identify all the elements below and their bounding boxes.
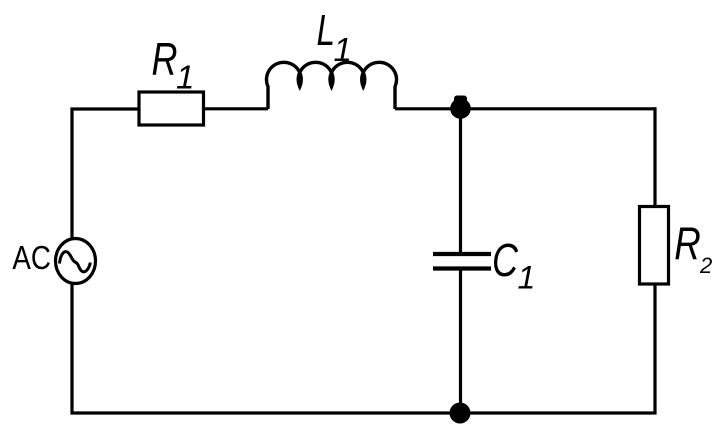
node B (bottom junction) <box>450 403 471 424</box>
node A (top junction) <box>450 98 471 119</box>
svg-text:1: 1 <box>176 59 194 96</box>
capacitor C1 <box>433 252 491 256</box>
wire top-left: from left corner to R1 <box>72 109 139 240</box>
svg-text:R: R <box>152 33 178 85</box>
resistor R1 <box>139 92 204 125</box>
wire R1 to L1 <box>204 107 269 110</box>
svg-text:L: L <box>317 6 336 55</box>
wire right rail lower: R2 to bottom corner <box>460 283 655 413</box>
svg-text:C: C <box>492 234 519 286</box>
svg-text:2: 2 <box>699 253 712 278</box>
wire capacitor branch lower <box>459 269 462 414</box>
AC source V1 <box>56 239 96 284</box>
wire capacitor branch upper <box>459 109 462 254</box>
svg-text:R: R <box>674 218 701 270</box>
wire bottom rail left half <box>72 283 460 413</box>
resistor R2 <box>640 207 669 285</box>
svg-text:AC: AC <box>12 240 51 277</box>
inductor L1 <box>266 62 396 109</box>
svg-text:1: 1 <box>518 260 536 296</box>
wire L1 to top-right corner <box>395 107 655 110</box>
wire right rail upper: corner to R2 <box>653 107 656 207</box>
svg-text:1: 1 <box>334 31 352 68</box>
sine wave inside AC source <box>60 252 91 272</box>
